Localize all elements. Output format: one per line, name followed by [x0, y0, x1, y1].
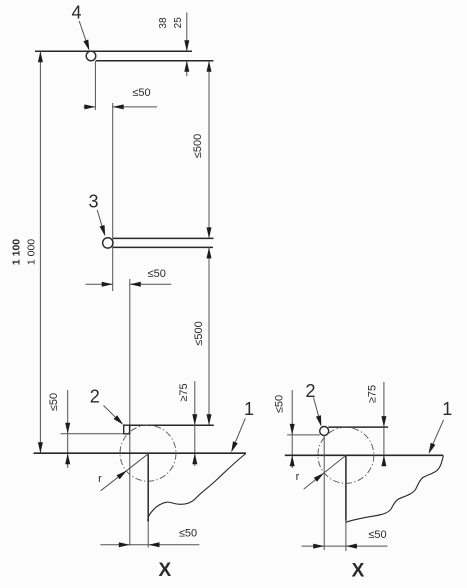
toe rail height dimension 75 right fig [383, 382, 385, 466]
svg-text:1 000: 1 000 [26, 239, 38, 265]
toe board height dimension 75 left fig [194, 381, 196, 466]
leader line for label 3 [97, 210, 104, 234]
break line left fig [148, 454, 246, 521]
leader line for label 2 left [104, 406, 122, 424]
svg-text:r: r [98, 473, 102, 485]
top rail upper line T1 [35, 50, 192, 52]
X offset dimension line left fig [100, 544, 199, 546]
round toe rail circle item 2 right [320, 427, 329, 436]
svg-text:X: X [352, 561, 365, 582]
top rail lower line T2 [96, 60, 214, 62]
slab edge line left fig [147, 453, 149, 521]
knee rail upper line M1 [113, 237, 214, 239]
extension line V3 [129, 279, 131, 546]
svg-text:2: 2 [305, 381, 315, 401]
extension line B right [287, 434, 320, 436]
svg-text:≥75: ≥75 [367, 385, 379, 403]
leader line for label 1 left [232, 418, 245, 450]
X offset dimension line right fig [302, 545, 388, 547]
chain dimension line upper 500 [208, 61, 210, 239]
toe board square item 2 [124, 425, 130, 434]
break line right fig [346, 455, 444, 522]
toe rail top line right [328, 426, 388, 428]
floor line right fig [285, 454, 443, 456]
knee rail lower line M2 [113, 246, 213, 248]
svg-text:1: 1 [442, 399, 452, 419]
extension line below handrail V1 [94, 61, 96, 110]
leader line for label 1 right [429, 420, 443, 452]
svg-text:3: 3 [88, 192, 98, 212]
svg-text:≤50: ≤50 [368, 529, 386, 541]
svg-text:1: 1 [244, 399, 254, 419]
svg-text:≤500: ≤500 [193, 321, 205, 345]
svg-text:X: X [158, 560, 171, 581]
handrail circle item 4 [86, 51, 96, 61]
rail thickness dimension line 38-25 [186, 12, 188, 51]
extension line below circle 2 right [323, 435, 325, 550]
svg-text:r: r [296, 471, 300, 483]
svg-text:≥75: ≥75 [178, 383, 190, 401]
radius leader left fig [101, 453, 149, 490]
toe board top line left [130, 424, 214, 426]
offset dimension 50 middle line [86, 283, 113, 285]
knee rail circle item 3 [103, 238, 113, 248]
slab edge extension right fig [345, 521, 347, 551]
svg-text:2: 2 [90, 387, 100, 407]
chain dimension line lower 500 [208, 247, 210, 425]
slab edge extension left fig [147, 522, 149, 548]
svg-text:38: 38 [158, 17, 169, 29]
overall height dimension line 1100 [39, 51, 41, 453]
svg-text:25: 25 [173, 17, 184, 29]
gap dimension 50 right fig [291, 390, 293, 468]
svg-text:≤50: ≤50 [48, 393, 60, 411]
svg-text:1 100: 1 100 [10, 239, 22, 265]
extension line A toe board bottom [61, 433, 124, 435]
gap dimension 50 left fig [67, 390, 69, 468]
svg-text:4: 4 [71, 3, 81, 23]
corner radius circle left fig [120, 425, 176, 481]
svg-text:≤500: ≤500 [192, 134, 204, 158]
svg-text:≤50: ≤50 [132, 87, 150, 99]
floor line left fig [34, 452, 247, 454]
svg-text:≤50: ≤50 [179, 528, 197, 540]
svg-text:≤50: ≤50 [274, 395, 286, 413]
offset dimension 50 top line [84, 106, 96, 108]
radius leader right fig [304, 455, 346, 489]
corner radius circle right fig [318, 427, 374, 483]
slab edge line right fig [345, 455, 347, 521]
svg-text:≤50: ≤50 [148, 268, 166, 280]
leader line for label 4 [79, 21, 88, 49]
leader line for label 2 right [314, 398, 321, 425]
extension line V2 [112, 103, 114, 291]
